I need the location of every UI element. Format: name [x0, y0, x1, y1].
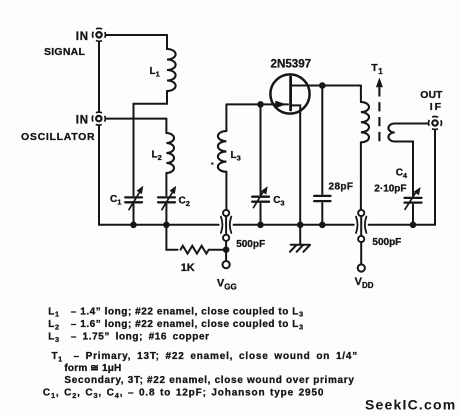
notes text block [43, 306, 358, 400]
transistor Q1 2N5397 JFET [270, 74, 313, 113]
svg-text:– 1.75” long; #16 copper: – 1.75” long; #16 copper [71, 332, 210, 343]
wire J2 to ground rail [98, 125, 100, 224]
svg-text:L1: L1 [48, 306, 59, 318]
svg-text:500pF: 500pF [372, 237, 401, 248]
label 500pF (FT2) [372, 237, 401, 248]
watermark SeekIC.com [365, 396, 456, 412]
label IN (oscillator) [76, 114, 89, 126]
svg-text:1K: 1K [181, 262, 195, 274]
wire J1 shield to J2 [98, 42, 100, 112]
svg-text:Secondary, 3T; #22 enamel, clo: Secondary, 3T; #22 enamel, close wound o… [64, 375, 354, 386]
wire C3 branch from gate [260, 104, 262, 194]
capacitor 28pF [314, 196, 330, 225]
svg-text:form ≅ 1μH: form ≅ 1μH [64, 363, 121, 374]
label C3 [273, 195, 284, 208]
capacitor C2 variable [158, 187, 175, 225]
svg-text:IN: IN [76, 31, 89, 43]
capacitor C4 variable [405, 188, 422, 225]
svg-text:L2: L2 [152, 150, 162, 163]
label IF [430, 101, 443, 113]
wire source to rail [299, 114, 301, 225]
svg-text:500pF: 500pF [236, 239, 265, 250]
label C4 [396, 168, 408, 181]
junction C1/rail [130, 222, 137, 229]
label 2N5397 [271, 58, 312, 71]
svg-text:OUT: OUT [420, 89, 443, 101]
capacitor C3 variable [252, 187, 269, 225]
junction drain/28pF [319, 82, 326, 89]
svg-text:C4: C4 [396, 168, 408, 181]
svg-text:VGG: VGG [217, 278, 237, 292]
junction C2/rail [163, 222, 170, 229]
svg-text:L3: L3 [231, 150, 241, 163]
label L1 [150, 66, 160, 79]
svg-text:T1: T1 [52, 351, 63, 363]
terminal VDD [358, 264, 365, 271]
feedthrough capacitor FT1 500pF [221, 210, 231, 261]
label C2 [179, 196, 190, 209]
feedthrough capacitor FT2 500pF [356, 210, 366, 265]
wire L1 bottom to C1 [134, 104, 168, 196]
scan artifact dot near L3 [211, 162, 214, 165]
label 28pF [329, 182, 354, 193]
svg-text:L3: L3 [48, 332, 59, 344]
svg-text:L2: L2 [48, 319, 59, 331]
svg-text:VDD: VDD [355, 276, 374, 290]
svg-text:– 1.4” long; #22 enamel, close: – 1.4” long; #22 enamel, close coupled t… [71, 306, 304, 318]
connector J3 OUT IF [429, 117, 442, 130]
T1 core dashed arrow [377, 79, 383, 141]
wire rail up to OUT connector [434, 130, 436, 225]
resistor R1 1K [166, 225, 226, 254]
label VGG [217, 278, 237, 292]
svg-text:IN: IN [76, 114, 89, 126]
junction C3/rail [257, 222, 264, 229]
wire drain to T1 [313, 85, 361, 87]
label 500pF (FT1) [236, 239, 265, 250]
label OSCILLATOR [21, 131, 95, 143]
svg-text:SeekIC.com: SeekIC.com [365, 396, 456, 412]
svg-text:2·10pF: 2·10pF [374, 184, 406, 195]
svg-text:C3: C3 [273, 195, 284, 208]
inductor L2 [166, 119, 174, 196]
svg-text:28pF: 28pF [329, 182, 354, 193]
terminal VGG [223, 261, 230, 268]
gate wire L3 to Q1 [226, 103, 288, 105]
label L2 [152, 150, 162, 163]
transformer T1 primary [361, 86, 369, 210]
svg-text:C1: C1 [110, 194, 121, 207]
svg-text:IF: IF [430, 101, 443, 113]
label 2-10pF [374, 184, 406, 195]
connector J2 IN OSCILLATOR [92, 112, 105, 125]
junction C4/rail [410, 222, 417, 229]
junction gate/C3 [257, 101, 264, 108]
wire J2 to L2 top [105, 118, 166, 120]
wire 28pF branch [321, 86, 323, 195]
label T1 [371, 62, 383, 76]
label OUT [420, 89, 443, 101]
svg-text:C1, C2, C3, C4, – 0.8 to 12pF;: C1, C2, C3, C4, – 0.8 to 12pF; Johanson … [43, 388, 324, 400]
label L3 [231, 150, 241, 163]
svg-text:C2: C2 [179, 196, 190, 209]
inductor L1 [167, 35, 176, 104]
junction source/rail [297, 222, 304, 229]
ground rail (bottom bus) [99, 224, 435, 226]
svg-text:SIGNAL: SIGNAL [44, 46, 86, 58]
svg-text:2N5397: 2N5397 [271, 58, 312, 71]
inductor L3 [218, 104, 227, 209]
label VDD [355, 276, 374, 290]
label SIGNAL [44, 46, 86, 58]
svg-text:– 1.6” long; #22 enamel, close: – 1.6” long; #22 enamel, close coupled t… [71, 319, 304, 331]
svg-text:– Primary, 13T; #22 enamel, cl: – Primary, 13T; #22 enamel, close wound … [74, 351, 359, 362]
connector J1 IN SIGNAL [93, 28, 106, 41]
junction R1/VGG line [223, 246, 230, 253]
capacitor C1 variable [125, 187, 142, 225]
label IN (signal) [76, 31, 89, 43]
label 1K [181, 262, 195, 274]
ground (chassis) [290, 225, 310, 252]
wire J1 to L1 top [106, 34, 167, 36]
junction 28pF/rail [319, 222, 326, 229]
svg-text:OSCILLATOR: OSCILLATOR [21, 131, 95, 143]
transformer T1 secondary [388, 124, 428, 196]
label C1 [110, 194, 121, 207]
svg-text:T1: T1 [371, 62, 383, 76]
svg-text:L1: L1 [150, 66, 160, 79]
